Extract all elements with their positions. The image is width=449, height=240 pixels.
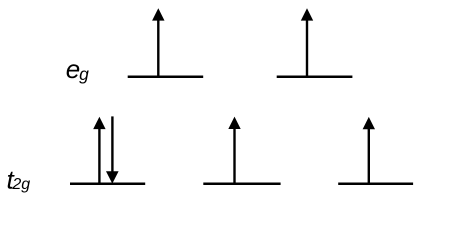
svg-text:2g: 2g <box>11 176 30 193</box>
svg-text:e: e <box>66 54 80 84</box>
spin-up electron arrow on eg-2 <box>301 8 313 78</box>
energy level line t2g-1 <box>70 182 145 185</box>
svg-text:g: g <box>79 64 89 84</box>
spin-up electron arrow on eg-1 <box>152 8 164 78</box>
spin-up electron arrow on t2g-3 <box>363 117 375 185</box>
energy level line t2g-2 <box>203 182 280 185</box>
label t_2g (lower energy level set) <box>7 164 31 194</box>
label e_g (upper energy level set) <box>66 54 89 84</box>
spin-up electron arrow on t2g-1 <box>93 117 105 185</box>
spin-up electron arrow on t2g-2 <box>228 117 240 185</box>
energy level line t2g-3 <box>338 183 413 186</box>
energy level line eg-1 <box>128 75 204 78</box>
energy level line eg-2 <box>277 75 353 78</box>
spin-down electron arrow on t2g-1 <box>106 116 119 183</box>
